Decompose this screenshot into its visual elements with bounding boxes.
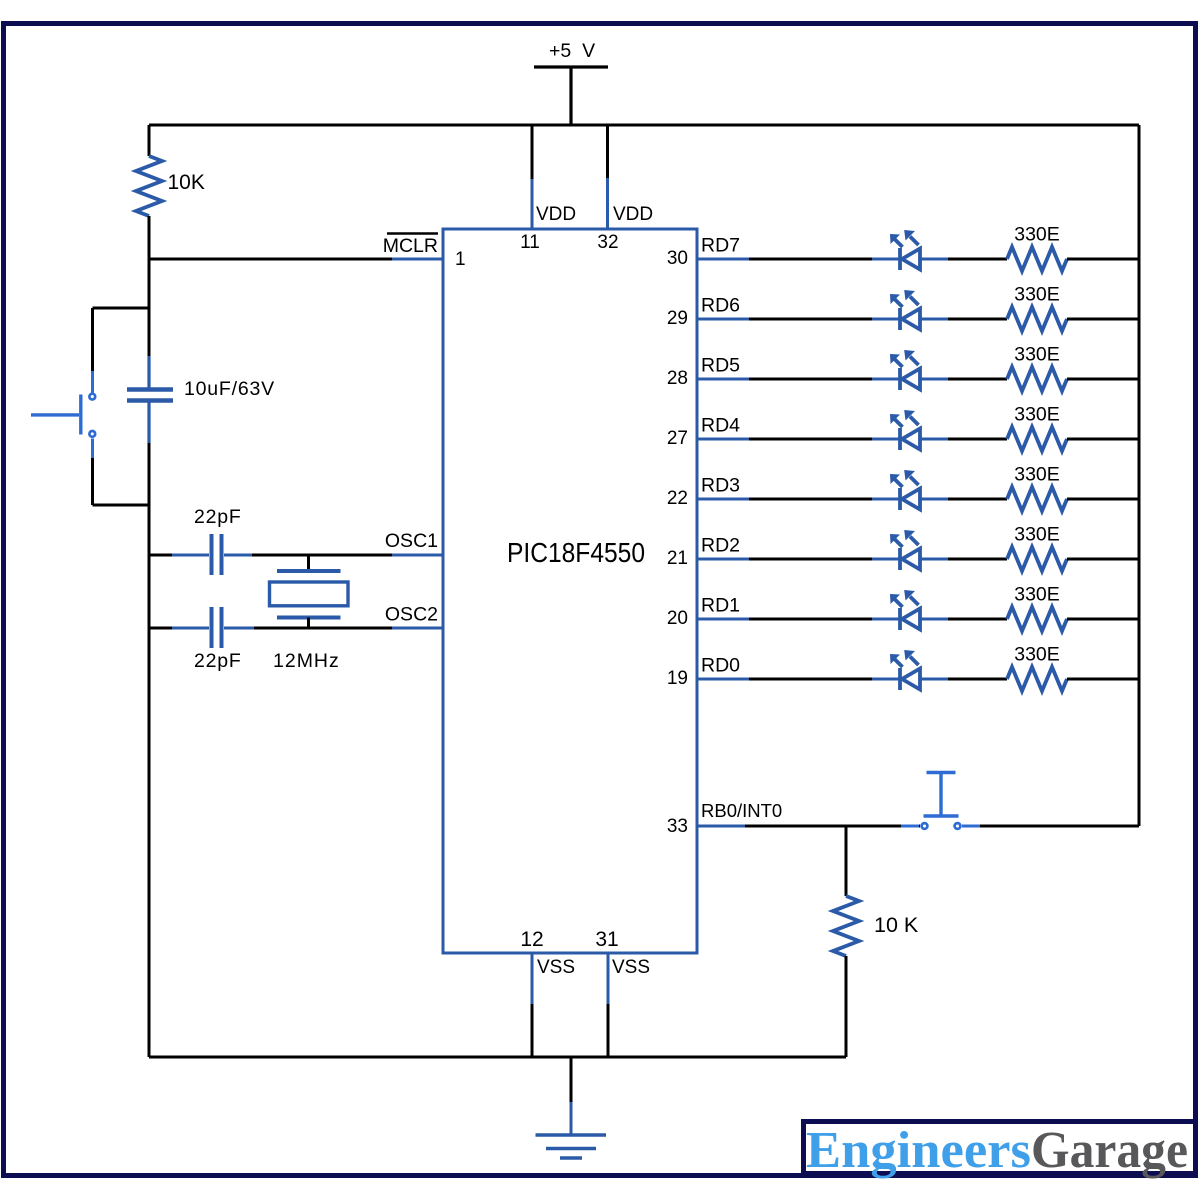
wire: LED to resistor RD0 xyxy=(948,678,1007,681)
resistor 330E RD6 xyxy=(1007,307,1067,331)
capacitor C1 10uF/63V xyxy=(127,356,173,443)
wire: pin21 stub xyxy=(697,558,749,561)
wire: LED to resistor RD2 xyxy=(948,558,1007,561)
wire: MCLR net xyxy=(149,258,443,261)
svg-text:RD2: RD2 xyxy=(701,535,740,557)
LED D8 xyxy=(890,230,920,270)
wire: VSS pin31 stub xyxy=(607,953,610,1057)
svg-text:33: 33 xyxy=(667,816,688,837)
svg-text:330E: 330E xyxy=(1014,584,1060,606)
svg-text:330E: 330E xyxy=(1014,284,1060,306)
svg-text:22pF: 22pF xyxy=(194,650,242,672)
svg-text:330E: 330E xyxy=(1014,524,1060,546)
LED D6 xyxy=(890,350,920,390)
wire: resistor to rail RD2 xyxy=(1067,558,1139,561)
svg-text:19: 19 xyxy=(667,668,688,689)
wire: LED to resistor RD6 xyxy=(948,318,1007,321)
wire: RD2 to LED xyxy=(749,558,872,561)
EngineersGarage logo xyxy=(804,1122,1196,1180)
wire: left rail upper segment xyxy=(148,125,151,156)
crystal X1 stub bottom xyxy=(307,618,310,629)
wire: VDD pin32 stub xyxy=(606,125,609,229)
wire: LED lead RD5 xyxy=(872,378,948,381)
wire: RD0 to LED xyxy=(749,678,872,681)
svg-text:11: 11 xyxy=(520,232,540,253)
wire: LED to resistor RD4 xyxy=(948,438,1007,441)
svg-text:27: 27 xyxy=(667,428,688,449)
svg-text:31: 31 xyxy=(595,928,618,951)
capacitor C3 22pF xyxy=(212,607,222,648)
svg-text:VSS: VSS xyxy=(537,957,575,978)
wire: LED lead RD4 xyxy=(872,438,948,441)
wire: button to rail xyxy=(980,825,1139,828)
svg-text:VDD: VDD xyxy=(536,204,576,225)
wire: pin29 stub xyxy=(697,318,749,321)
svg-text:30: 30 xyxy=(667,248,688,269)
wire: pin20 stub xyxy=(697,618,749,621)
wire: LED to resistor RD1 xyxy=(948,618,1007,621)
svg-text:RD6: RD6 xyxy=(701,295,740,317)
svg-text:Engineers: Engineers xyxy=(806,1122,1031,1179)
LED D7 xyxy=(890,290,920,330)
svg-text:VDD: VDD xyxy=(613,204,653,225)
svg-text:10K: 10K xyxy=(168,171,205,194)
wire: LED lead RD0 xyxy=(872,678,948,681)
wire: resistor to rail RD4 xyxy=(1067,438,1139,441)
wire: RB0 to R3 xyxy=(845,826,848,896)
wire: switch to branch bottom xyxy=(91,439,94,506)
LED row RD0 / pin 19 xyxy=(667,644,1139,692)
svg-text:PIC18F4550: PIC18F4550 xyxy=(507,537,645,568)
wire: ground stem xyxy=(570,1057,573,1135)
wire: resistor to rail RD6 xyxy=(1067,318,1139,321)
wire: RD4 to LED xyxy=(749,438,872,441)
op: IC U1 PIC18F4550 xyxy=(443,229,697,953)
ground symbol xyxy=(536,1135,607,1158)
svg-text:29: 29 xyxy=(667,308,688,329)
svg-text:RD3: RD3 xyxy=(701,475,740,497)
svg-text:RD7: RD7 xyxy=(701,235,740,257)
wire: RD3 to LED xyxy=(749,498,872,501)
svg-text:22: 22 xyxy=(667,488,688,509)
wire: LED lead RD3 xyxy=(872,498,948,501)
wire: VSS pin12 stub xyxy=(531,953,534,1057)
resistor 330E RD7 xyxy=(1007,247,1067,271)
push button S2 xyxy=(922,773,961,829)
svg-text:OSC1: OSC1 xyxy=(385,530,438,552)
wire: LED lead RD6 xyxy=(872,318,948,321)
wire: resistor to rail RD1 xyxy=(1067,618,1139,621)
LED D5 xyxy=(890,410,920,450)
resistor 330E RD3 xyxy=(1007,487,1067,511)
wire: RD6 to LED xyxy=(749,318,872,321)
resistor 330E RD2 xyxy=(1007,547,1067,571)
svg-text:20: 20 xyxy=(667,608,688,629)
wire: reset button branch top xyxy=(93,307,150,310)
wire: left rail, C1 to bottom xyxy=(148,443,151,1057)
svg-text:12MHz: 12MHz xyxy=(273,650,340,672)
svg-text:330E: 330E xyxy=(1014,464,1060,486)
wire: resistor to rail RD0 xyxy=(1067,678,1139,681)
svg-text:28: 28 xyxy=(667,368,688,389)
wire: RD7 to LED xyxy=(749,258,872,261)
LED D3 xyxy=(890,530,920,570)
wire: LED lead RD2 xyxy=(872,558,948,561)
svg-text:RD1: RD1 xyxy=(701,595,740,617)
wire: branch down to switch xyxy=(91,308,94,393)
svg-text:OSC2: OSC2 xyxy=(385,604,438,626)
LED row RD3 / pin 22 xyxy=(667,464,1139,512)
wire: pin30 stub xyxy=(697,258,749,261)
wire: LED to resistor RD3 xyxy=(948,498,1007,501)
wire: RD5 to LED xyxy=(749,378,872,381)
svg-text:VSS: VSS xyxy=(612,957,650,978)
resistor 330E RD1 xyxy=(1007,607,1067,631)
push button S1 (reset) xyxy=(31,394,95,437)
wire: pin28 stub xyxy=(697,378,749,381)
resistor R3 10 K xyxy=(833,896,859,956)
wire: button lead left xyxy=(901,825,919,828)
wire: resistor to rail RD5 xyxy=(1067,378,1139,381)
svg-text:330E: 330E xyxy=(1014,224,1060,246)
LED D4 xyxy=(890,470,920,510)
svg-text:12: 12 xyxy=(520,928,543,951)
svg-text:+5 V: +5 V xyxy=(549,40,595,62)
wire: top +5V rail xyxy=(149,124,1139,127)
wire: left rail, R1 to C1 xyxy=(148,216,151,356)
svg-text:330E: 330E xyxy=(1014,344,1060,366)
RB0/INT0 row pin 33 xyxy=(667,773,1139,838)
wire: pin33 stub xyxy=(697,825,745,828)
svg-text:32: 32 xyxy=(597,232,618,253)
wire: RD1 to LED xyxy=(749,618,872,621)
LED row RD1 / pin 20 xyxy=(667,584,1139,632)
wire: bottom ground rail xyxy=(149,1056,846,1059)
svg-text:MCLR: MCLR xyxy=(383,235,438,257)
wire: LED to resistor RD7 xyxy=(948,258,1007,261)
wire: pin22 stub xyxy=(697,498,749,501)
wire: LED lead RD7 xyxy=(872,258,948,261)
resistor 330E RD5 xyxy=(1007,367,1067,391)
svg-text:330E: 330E xyxy=(1014,644,1060,666)
svg-text:RD4: RD4 xyxy=(701,415,740,437)
wire: VDD pin11 stub xyxy=(531,125,534,229)
svg-text:RB0/INT0: RB0/INT0 xyxy=(701,800,782,821)
wire: OSC1 net xyxy=(149,554,443,557)
resistor 330E RD0 xyxy=(1007,667,1067,691)
svg-text:22pF: 22pF xyxy=(194,506,242,528)
svg-text:RD0: RD0 xyxy=(701,655,740,677)
wire: button lead right xyxy=(962,825,980,828)
wire: R3 to bottom rail xyxy=(845,956,848,1057)
LED D1 xyxy=(890,650,920,690)
wire: right rail xyxy=(1138,125,1141,826)
wire: LED lead RD1 xyxy=(872,618,948,621)
wire: resistor to rail RD7 xyxy=(1067,258,1139,261)
wire: reset button branch bottom xyxy=(93,504,150,507)
wire: resistor to rail RD3 xyxy=(1067,498,1139,501)
LED row RD4 / pin 27 xyxy=(667,404,1139,452)
LED row RD2 / pin 21 xyxy=(667,524,1139,572)
LED D2 xyxy=(890,590,920,630)
LED row RD6 / pin 29 xyxy=(667,284,1139,332)
crystal X1 stub top xyxy=(307,555,310,571)
resistor R1 10K xyxy=(136,156,162,216)
svg-text:10uF/63V: 10uF/63V xyxy=(184,378,275,400)
wire: OSC2 net xyxy=(149,627,443,630)
svg-text:21: 21 xyxy=(667,548,688,569)
resistor 330E RD4 xyxy=(1007,427,1067,451)
svg-text:1: 1 xyxy=(455,249,466,270)
wire: pin27 stub xyxy=(697,438,749,441)
MCLR overline xyxy=(387,232,438,235)
crystal X1 12MHz xyxy=(270,571,349,618)
svg-text:10 K: 10 K xyxy=(874,913,919,937)
wire: RB0 to button xyxy=(745,825,920,828)
LED row RD7 / pin 30 xyxy=(667,224,1139,272)
wire: pin19 stub xyxy=(697,678,749,681)
wire: LED to resistor RD5 xyxy=(948,378,1007,381)
LED row RD5 / pin 28 xyxy=(667,344,1139,392)
svg-text:Garage: Garage xyxy=(1031,1122,1188,1179)
svg-text:330E: 330E xyxy=(1014,404,1060,426)
+5V power symbol xyxy=(534,67,608,125)
svg-text:RD5: RD5 xyxy=(701,355,740,377)
capacitor C2 22pF xyxy=(212,534,222,575)
